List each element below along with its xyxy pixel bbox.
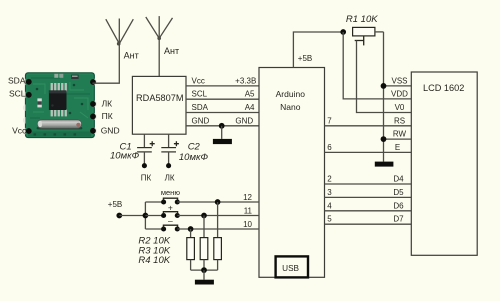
module IC chip — [49, 83, 67, 116]
junction on GND wire — [219, 123, 225, 129]
resistor R4 (row10) — [187, 229, 195, 270]
svg-text:A4: A4 — [245, 103, 255, 112]
module pin GND — [90, 125, 119, 135]
potentiometer R1 — [353, 27, 384, 45]
junction row 10 — [188, 226, 194, 232]
wire +5B to button bus — [119, 215, 145, 217]
svg-text:SDA: SDA — [192, 103, 209, 112]
antenna 1 — [106, 19, 134, 45]
module pin SCL — [9, 89, 32, 99]
module SMD parts — [37, 74, 78, 108]
svg-text:SCL: SCL — [192, 90, 208, 99]
svg-text:GND: GND — [101, 125, 120, 135]
ground symbol buttons — [195, 280, 214, 285]
wire +5B to VDD — [343, 32, 411, 99]
wire Vcc to +3.3B — [186, 85, 259, 87]
svg-text:+: + — [168, 202, 173, 212]
junction row 12 — [215, 199, 221, 205]
svg-text:ПК: ПК — [102, 111, 113, 121]
wire R1 wiper to V0 — [357, 41, 412, 113]
svg-text:12: 12 — [243, 193, 252, 202]
svg-text:10: 10 — [243, 220, 252, 229]
svg-text:RS: RS — [394, 116, 405, 125]
svg-text:GND: GND — [192, 116, 210, 125]
svg-text:VSS: VSS — [391, 76, 407, 85]
label C2 value — [179, 141, 209, 163]
svg-text:V0: V0 — [395, 103, 405, 112]
wire resistor common bus — [191, 269, 218, 271]
svg-text:USB: USB — [282, 264, 299, 273]
junction bus +5B — [143, 213, 149, 219]
svg-text:D4: D4 — [393, 175, 404, 184]
wire pin7 to RS — [325, 125, 412, 127]
svg-text:меню: меню — [161, 188, 180, 197]
wire RW — [384, 138, 412, 140]
resistor R2 (row12) — [214, 202, 222, 270]
wire pin3 to D5 — [325, 196, 412, 198]
junction RW — [381, 136, 387, 142]
svg-text:R1 10K: R1 10K — [346, 14, 378, 25]
wire VSS — [384, 85, 412, 87]
junction VSS — [381, 83, 387, 89]
IC RDA5807M box — [132, 76, 186, 134]
display LCD 1602 box — [411, 72, 477, 255]
svg-text:+3.3B: +3.3B — [235, 76, 256, 85]
ground symbol under GND wire — [213, 139, 232, 144]
svg-text:C2: C2 — [188, 141, 201, 152]
svg-text:D7: D7 — [393, 215, 404, 224]
wire antenna 2 to RDA5807M — [158, 38, 160, 76]
svg-text:10мкФ: 10мкФ — [179, 152, 209, 163]
label C1 value — [110, 141, 140, 161]
svg-text:E: E — [395, 143, 400, 152]
wire SCL to A5 — [186, 98, 259, 100]
svg-text:6: 6 — [327, 143, 332, 152]
resistor R3 (row11) — [200, 216, 208, 271]
wire pin4 to D6 — [325, 210, 412, 212]
svg-text:Vcc: Vcc — [12, 126, 27, 136]
wire +5B to Arduino Vcc — [293, 32, 343, 68]
module castellation notches — [23, 79, 97, 135]
switch SB2 plus — [145, 212, 259, 218]
wire R1 right to ground rail — [383, 32, 385, 162]
svg-text:7: 7 — [327, 116, 332, 125]
svg-text:SDA: SDA — [8, 75, 26, 85]
svg-text:A5: A5 — [245, 90, 255, 99]
wire GND junction to ground — [221, 126, 223, 139]
wire pin6 to E — [325, 151, 412, 153]
label R2 R3 R4 values — [138, 236, 170, 266]
USB connector box — [276, 256, 308, 277]
svg-text:ЛК: ЛК — [165, 174, 175, 183]
junction at R1 left — [340, 29, 346, 35]
svg-text:–: – — [168, 215, 173, 225]
MCU Arduino Nano box — [259, 68, 325, 278]
svg-text:11: 11 — [244, 207, 253, 216]
svg-text:Nano: Nano — [280, 102, 301, 112]
svg-text:GND: GND — [235, 116, 253, 125]
svg-text:D6: D6 — [393, 201, 404, 210]
svg-text:RDA5807M: RDA5807M — [136, 93, 184, 103]
module pin Vcc — [12, 126, 32, 136]
module pin PK — [90, 111, 113, 121]
capacitor C2 — [161, 134, 179, 168]
svg-text:4: 4 — [327, 201, 332, 210]
switch SB3 minus — [145, 225, 259, 231]
wire pin2 to D4 — [325, 183, 412, 185]
svg-text:Vcc: Vcc — [192, 76, 205, 85]
terminal +5B — [116, 213, 122, 219]
svg-text:SCL: SCL — [9, 89, 26, 99]
svg-text:10мкФ: 10мкФ — [110, 151, 140, 162]
wire SDA to A4 — [186, 112, 259, 114]
switch SB1 menu — [145, 198, 259, 204]
junction row 11 — [201, 213, 207, 219]
module photo RDA5807M PCB — [26, 73, 95, 138]
wire pin5 to D7 — [325, 223, 412, 225]
antenna 2 — [146, 16, 173, 39]
module crystal — [37, 120, 83, 130]
svg-text:Ант: Ант — [164, 46, 179, 56]
wire module ANT to antenna 1 — [93, 44, 120, 83]
svg-text:3: 3 — [327, 188, 332, 197]
svg-text:D5: D5 — [393, 188, 404, 197]
ground symbol LCD — [375, 162, 394, 167]
svg-text:ПК: ПК — [141, 174, 152, 183]
svg-text:ЛК: ЛК — [102, 98, 113, 108]
junction resistor bus — [201, 267, 207, 273]
capacitor C1 — [137, 134, 155, 168]
module pin SDA — [8, 75, 32, 85]
svg-text:5: 5 — [327, 215, 332, 224]
module pin ANT — [90, 79, 96, 85]
wire GND to GND — [186, 125, 259, 127]
svg-text:VDD: VDD — [391, 90, 408, 99]
svg-text:RW: RW — [393, 130, 407, 139]
svg-text:+5B: +5B — [298, 54, 312, 63]
svg-text:R4 10K: R4 10K — [138, 255, 170, 266]
svg-text:Ант: Ант — [124, 50, 139, 60]
wire to ground buttons — [203, 270, 205, 280]
svg-text:Arduino: Arduino — [276, 89, 306, 99]
svg-text:+5B: +5B — [108, 200, 122, 209]
svg-text:2: 2 — [327, 175, 332, 184]
svg-text:LCD 1602: LCD 1602 — [423, 83, 464, 93]
module pin LK — [90, 98, 112, 108]
button bus vertical — [144, 202, 146, 229]
